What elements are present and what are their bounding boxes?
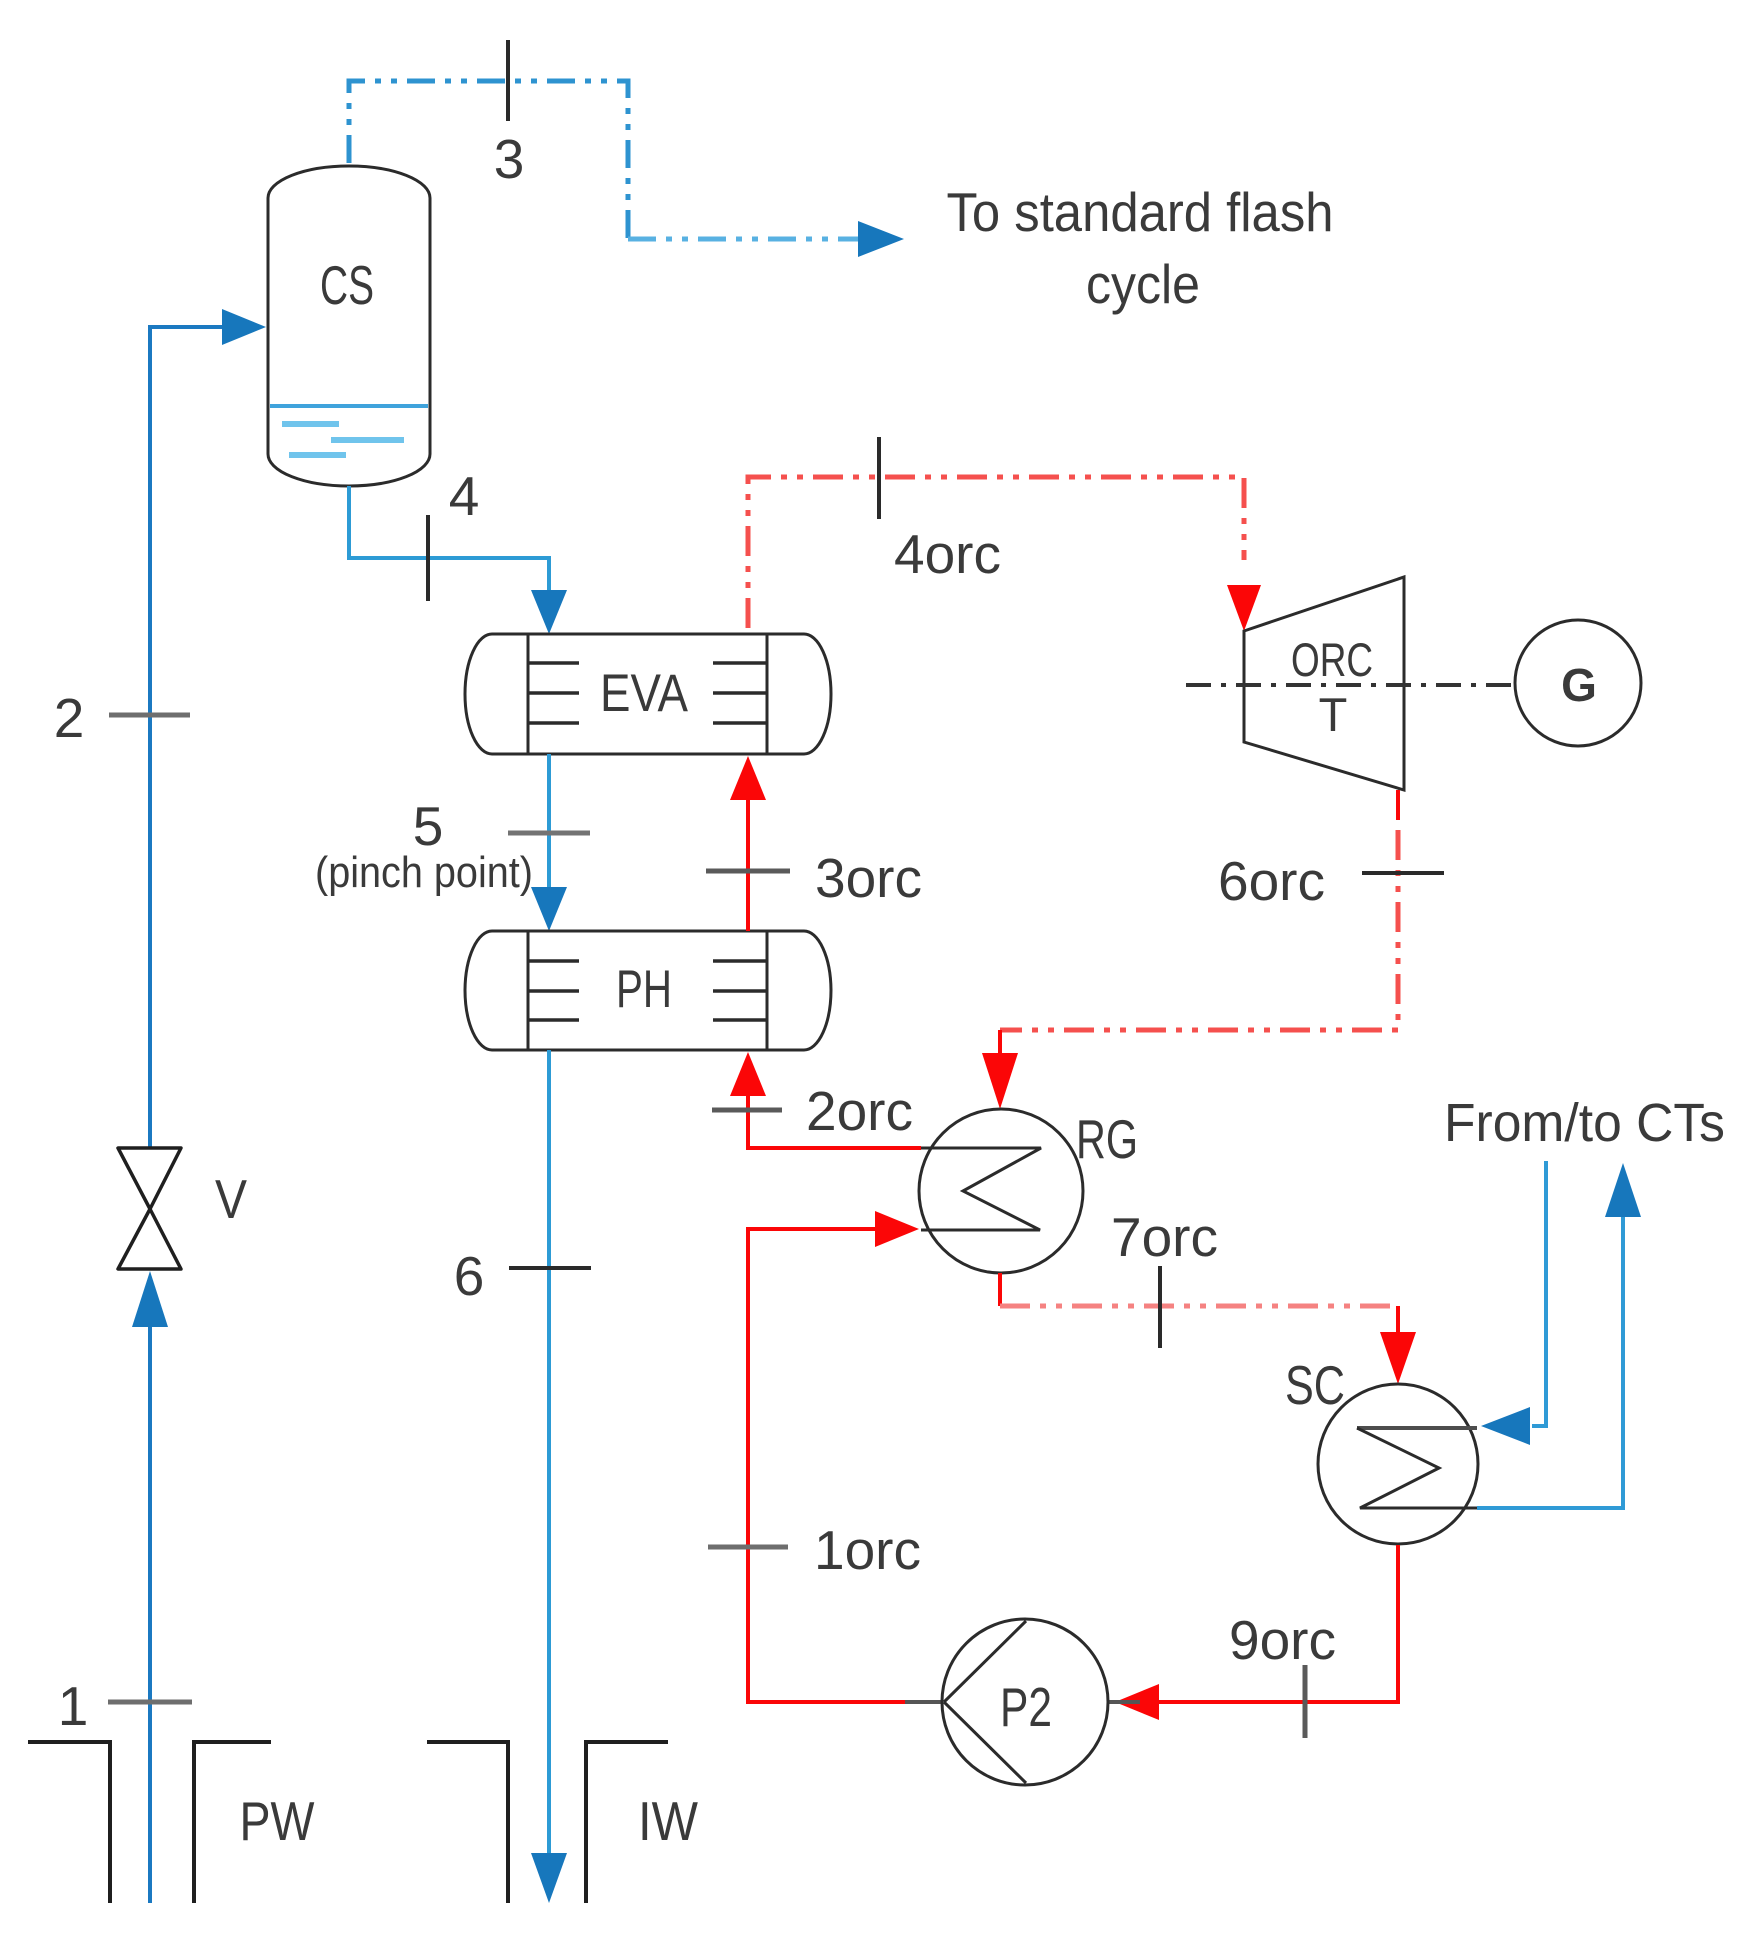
wire cooling water from CTs into SC (blue) xyxy=(1481,1161,1546,1445)
wire stream 6orc turbine to RG (red dash-dot) xyxy=(982,790,1398,1109)
node 4orc tick xyxy=(879,437,1001,585)
svg-text:4: 4 xyxy=(449,465,480,527)
node 1 tick xyxy=(58,1675,192,1737)
wire stream 5 EVA to PH xyxy=(531,754,567,931)
wire stream 1-2 vertical blue line below valve xyxy=(132,1271,168,1903)
generator G xyxy=(1515,620,1641,746)
separator CS xyxy=(268,166,430,486)
label: To standard flash cycle xyxy=(947,181,1334,315)
svg-text:6orc: 6orc xyxy=(1218,850,1325,912)
condenser SC xyxy=(1285,1354,1478,1544)
svg-text:4orc: 4orc xyxy=(894,523,1001,585)
svg-text:To standard flash: To standard flash xyxy=(947,181,1334,243)
svg-text:2: 2 xyxy=(54,687,85,749)
node 6orc tick xyxy=(1218,850,1444,912)
regenerator RG xyxy=(919,1108,1138,1273)
node 2orc tick xyxy=(712,1080,913,1142)
svg-text:6: 6 xyxy=(454,1245,485,1307)
svg-text:(pinch point): (pinch point) xyxy=(315,848,533,897)
svg-text:CS: CS xyxy=(320,254,374,316)
injection well IW xyxy=(427,1742,698,1903)
wire stream 4orc EVA to turbine (red dash-dot) xyxy=(748,477,1261,631)
svg-text:G: G xyxy=(1561,659,1597,711)
svg-text:PW: PW xyxy=(240,1790,315,1852)
wire cooling water SC back to CTs (blue) xyxy=(1477,1163,1641,1508)
svg-text:ORC: ORC xyxy=(1291,633,1373,686)
node 2 tick xyxy=(54,687,190,749)
svg-text:EVA: EVA xyxy=(600,664,689,723)
svg-text:cycle: cycle xyxy=(1086,253,1200,315)
svg-text:2orc: 2orc xyxy=(806,1080,913,1142)
svg-text:PH: PH xyxy=(616,960,672,1019)
wire stream 9orc SC to P2 (red) xyxy=(1115,1545,1398,1720)
wire stream 2 blue line above valve into CS xyxy=(150,309,266,1148)
wire stream 1orc P2 to RG (red) xyxy=(748,1211,942,1702)
node 9orc tick xyxy=(1229,1609,1336,1738)
wire stream 2orc RG to PH (red) xyxy=(730,1052,921,1148)
wire stream 4 from CS to EVA xyxy=(349,486,567,634)
heat exchanger PH xyxy=(465,931,831,1050)
node 5 tick (pinch point) xyxy=(315,795,590,897)
node 3 tick xyxy=(494,40,525,190)
node 6 tick xyxy=(454,1245,591,1307)
node 7orc tick xyxy=(1111,1206,1218,1348)
heat exchanger EVA xyxy=(465,634,831,754)
svg-text:T: T xyxy=(1319,688,1348,741)
wire stream 7orc RG to SC (red dash-dot) xyxy=(1000,1273,1416,1384)
svg-text:P2: P2 xyxy=(1000,1676,1052,1738)
svg-text:7orc: 7orc xyxy=(1111,1206,1218,1268)
wire stream 3 dash-dot to standard flash cycle xyxy=(349,81,904,257)
label From/to CTs xyxy=(1444,1093,1725,1153)
node 4 tick xyxy=(428,465,479,601)
svg-text:1: 1 xyxy=(58,1675,89,1737)
svg-text:RG: RG xyxy=(1076,1108,1138,1170)
production well PW xyxy=(28,1742,315,1903)
svg-text:3: 3 xyxy=(494,128,525,190)
svg-text:IW: IW xyxy=(638,1790,698,1852)
pump P2 xyxy=(905,1619,1140,1785)
wire stream 6 PH to IW xyxy=(531,1050,567,1903)
valve V xyxy=(118,1148,247,1269)
svg-text:From/to CTs: From/to CTs xyxy=(1444,1093,1725,1153)
node 3orc tick xyxy=(706,847,922,909)
wire stream 3orc PH to EVA (red) xyxy=(730,756,766,931)
svg-text:SC: SC xyxy=(1285,1354,1345,1416)
svg-text:3orc: 3orc xyxy=(815,847,922,909)
turbine ORC T xyxy=(1186,577,1515,790)
svg-text:9orc: 9orc xyxy=(1229,1609,1336,1671)
node 1orc tick xyxy=(708,1519,921,1581)
svg-text:V: V xyxy=(215,1168,247,1230)
svg-text:1orc: 1orc xyxy=(814,1519,921,1581)
